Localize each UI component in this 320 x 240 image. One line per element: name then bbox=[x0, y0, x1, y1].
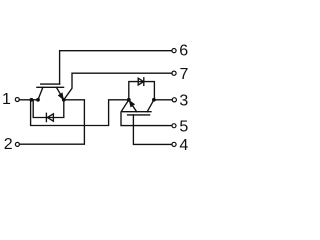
svg-text:5: 5 bbox=[179, 119, 188, 136]
junction node 1a bbox=[30, 98, 34, 102]
terminal 7 bbox=[172, 71, 176, 75]
wire aux emitter Q1 bbox=[64, 73, 172, 100]
terminal 6 bbox=[172, 49, 176, 53]
IGBT Q1 gate plate bbox=[41, 83, 60, 85]
svg-text:4: 4 bbox=[179, 137, 188, 154]
IGBT Q2 emitter arrow bbox=[129, 101, 134, 107]
terminal 4 bbox=[172, 142, 176, 146]
IGBT Q2 gate plate bbox=[128, 114, 150, 116]
svg-text:6: 6 bbox=[179, 43, 188, 60]
IGBT Q2 collector diagonal bbox=[147, 100, 154, 112]
IGBT Q2 emitter diagonal bbox=[129, 100, 137, 112]
terminal 3 bbox=[172, 98, 176, 102]
svg-text:1: 1 bbox=[2, 91, 11, 108]
svg-text:3: 3 bbox=[179, 92, 188, 109]
wire node1 to emitter Q2 (L path) bbox=[31, 100, 129, 126]
junction collector Q1 bbox=[36, 98, 40, 102]
IGBT Q1 channel bar bbox=[37, 86, 64, 88]
terminal 2 bbox=[15, 142, 19, 146]
IGBT Q2 channel bar bbox=[122, 111, 151, 113]
diode D2 cathode bar bbox=[143, 78, 145, 86]
diode D2 triangle bbox=[138, 78, 143, 85]
IGBT Q1 emitter diagonal bbox=[56, 87, 63, 100]
diode D1 cathode bar bbox=[45, 113, 47, 121]
svg-text:7: 7 bbox=[180, 66, 189, 83]
wire emitter Q1 to terminal 2 bbox=[20, 100, 85, 144]
diode D1 triangle bbox=[47, 114, 53, 121]
junction collector Q2 bbox=[152, 98, 156, 102]
svg-text:2: 2 bbox=[4, 136, 13, 153]
wire aux emitter Q2 to terminal 5 bbox=[121, 100, 172, 126]
terminal 5 bbox=[172, 124, 176, 128]
junction emitter Q2 bbox=[127, 98, 131, 102]
wire gate Q2 to terminal 4 bbox=[133, 115, 172, 144]
IGBT Q1 emitter arrow bbox=[58, 93, 63, 99]
diode D1 drop from collector node bbox=[33, 100, 64, 118]
wire gate Q1 to terminal 6 bbox=[60, 51, 172, 84]
wire collector Q2 to terminal 3 bbox=[154, 99, 172, 101]
junction emitter Q1 bbox=[62, 98, 66, 102]
terminal 1 bbox=[15, 98, 19, 102]
diode D2 loop bbox=[129, 82, 155, 100]
IGBT Q1 collector diagonal bbox=[38, 87, 43, 100]
wire terminal1 to collector Q1 bbox=[19, 99, 38, 101]
